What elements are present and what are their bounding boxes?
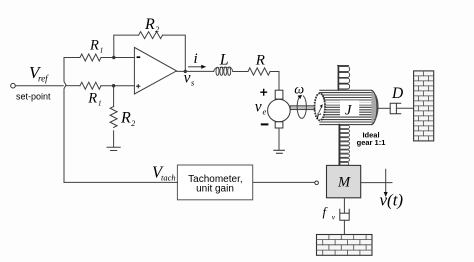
wire junction bus to tachometer (64, 181, 177, 183)
svg-text:ref: ref (38, 74, 49, 84)
node output junction (184, 70, 187, 73)
svg-text:i: i (194, 51, 198, 67)
svg-text:R: R (255, 53, 265, 69)
op-amp U1 (134, 47, 176, 94)
wire Vref to junction (15, 85, 63, 87)
svg-text:J: J (345, 102, 352, 118)
rack bottom section (339, 125, 349, 166)
ground (under R2) (107, 147, 120, 150)
svg-text:D: D (391, 85, 403, 102)
shaft motor to gear (290, 106, 319, 110)
wire R to motor (270, 72, 279, 91)
arrow i (189, 66, 204, 68)
inductor L (214, 67, 233, 75)
label minus motor (261, 123, 269, 125)
resistor R2 (feedback) (139, 32, 163, 39)
rod damper to wall (396, 107, 413, 109)
motor top terminal (275, 90, 283, 99)
cylinder J body (320, 90, 378, 124)
wire R1 bottom to plus node (101, 85, 134, 87)
svg-text:2: 2 (131, 119, 135, 128)
damper fv (340, 209, 349, 220)
label minus op-amp (137, 56, 141, 58)
svg-text:M: M (337, 174, 351, 190)
svg-text:r: r (316, 108, 321, 122)
arrow v(t) (385, 169, 387, 193)
motor bottom terminal (275, 122, 283, 128)
resistor R1 (bottom) (80, 82, 101, 89)
wire feedback up (114, 35, 139, 57)
label plus op-amp (136, 84, 140, 88)
wire op-amp output (177, 70, 214, 72)
svg-text:R: R (87, 91, 97, 107)
resistor R1 (top) (80, 54, 101, 61)
svg-text:1: 1 (100, 45, 104, 54)
svg-text:e: e (263, 106, 267, 116)
svg-text:unit gain: unit gain (196, 183, 234, 194)
wire top branch to R1 (64, 57, 80, 59)
wire tachometer to node (253, 181, 315, 183)
wire L to R (233, 71, 248, 73)
wire M to right (361, 182, 392, 184)
svg-text:gear 1:1: gear 1:1 (357, 138, 386, 147)
arrow r (319, 107, 322, 113)
rod cylinder to damper D (377, 107, 390, 109)
svg-text:1: 1 (98, 99, 102, 108)
gear disc (ideal gear) (315, 94, 324, 120)
tachometer box (177, 165, 252, 200)
wall (right) (414, 71, 434, 141)
node plus junction (112, 84, 115, 87)
svg-text:v(t): v(t) (380, 191, 404, 210)
damper D (390, 103, 401, 114)
node Vref terminal (11, 83, 16, 88)
wire vertical feedback bus (64, 58, 66, 183)
mass M box (327, 165, 361, 197)
wire motor to ground (278, 128, 280, 150)
wire feedback down to output (163, 35, 186, 71)
rotation arrow omega (297, 96, 306, 119)
svg-text:set-point: set-point (16, 92, 51, 102)
svg-text:v: v (255, 99, 262, 116)
svg-text:2: 2 (155, 25, 159, 34)
label plus motor (260, 89, 267, 96)
motor body (268, 99, 291, 122)
svg-text:L: L (219, 52, 229, 69)
svg-text:R: R (144, 16, 155, 33)
svg-text:R: R (120, 110, 131, 127)
resistor R2 (to ground) (110, 107, 117, 128)
node tach terminal (315, 181, 319, 185)
rod damper to bottom wall (343, 220, 345, 234)
rod M to damper fv (343, 198, 345, 213)
svg-text:R: R (89, 37, 99, 53)
wire R2 to ground (113, 131, 115, 147)
wire plus node down to R2 (113, 86, 115, 107)
svg-text:tach: tach (161, 173, 176, 183)
svg-text:ω: ω (294, 83, 304, 98)
rack top section (338, 66, 350, 91)
wire R1 top to minus node (101, 57, 134, 59)
ground (motor) (274, 150, 284, 153)
node minus junction (112, 56, 115, 59)
wall (bottom) (317, 235, 373, 256)
svg-text:v: v (184, 70, 191, 87)
resistor R (248, 68, 270, 75)
wire mid branch to R1 (66, 85, 80, 87)
